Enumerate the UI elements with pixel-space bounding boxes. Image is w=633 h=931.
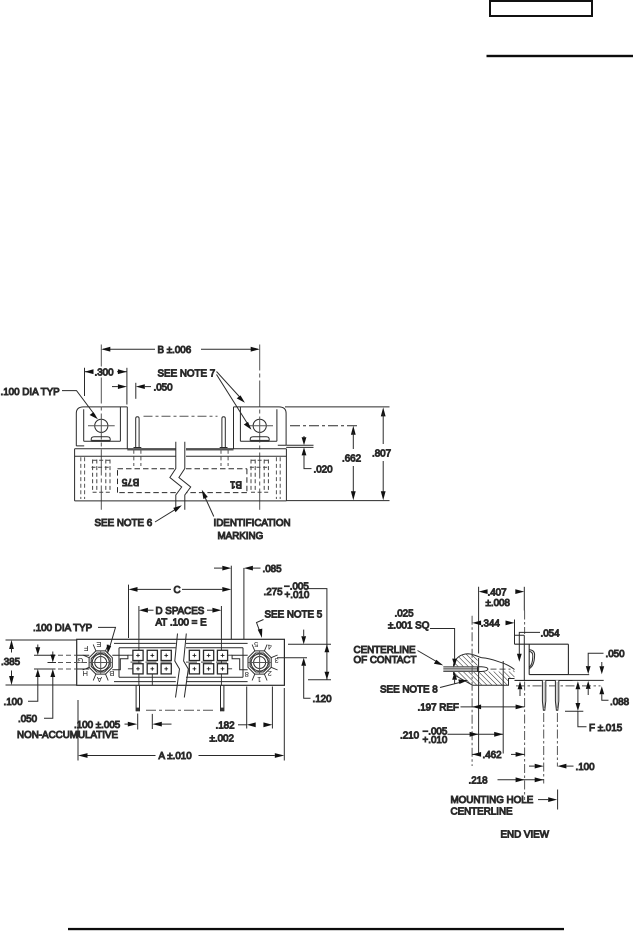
dim .085 [214, 564, 282, 640]
svg-text:.182: .182 [216, 721, 235, 732]
svg-text:END VIEW: END VIEW [501, 830, 550, 841]
flange section hatched upper wedge [454, 654, 478, 667]
hole centerline right [259, 345, 261, 510]
row and hole reference lines [34, 655, 56, 669]
shroud inner walls [119, 648, 243, 677]
svg-text:H: H [82, 669, 87, 678]
pin left top view [136, 685, 139, 711]
svg-text:.054: .054 [541, 628, 561, 639]
break lines top view [175, 634, 180, 698]
tab on body [515, 635, 525, 644]
body outline top view [77, 639, 285, 685]
label MOUNTING HOLE CENTERLINE [451, 790, 558, 818]
dim C [129, 566, 232, 640]
pcb pin 2 [555, 680, 558, 710]
seating plane centerline [516, 685, 601, 687]
svg-text:C: C [174, 585, 181, 596]
pin centerlines below [543, 713, 545, 784]
label SEE NOTE 7 [158, 369, 252, 430]
svg-text:.385: .385 [1, 657, 21, 668]
svg-text:5: 5 [254, 640, 258, 649]
svg-text:F: F [84, 644, 89, 653]
svg-text:.050: .050 [18, 714, 38, 725]
flange section outline [454, 654, 515, 685]
svg-text:B75: B75 [121, 476, 139, 487]
label .100 DIA TYP front [1, 387, 98, 420]
row line stubs into steps [128, 655, 232, 669]
svg-text:.210: .210 [400, 731, 420, 742]
svg-text:.100 DIA TYP: .100 DIA TYP [33, 623, 93, 634]
svg-text:.100: .100 [576, 762, 596, 773]
dim D SPACES AT .100 = E [139, 606, 222, 638]
mounting hole right [253, 419, 266, 432]
dim .182 [210, 687, 273, 745]
svg-text:±.001 SQ: ±.001 SQ [388, 620, 430, 631]
cavity mid wall dashes [131, 661, 231, 663]
svg-text:MARKING: MARKING [218, 531, 264, 542]
dim .120 [277, 630, 332, 705]
svg-text:SEE NOTE 6: SEE NOTE 6 [95, 518, 153, 529]
svg-text:.407: .407 [488, 587, 507, 598]
sunburst lines right [252, 645, 278, 681]
svg-text:.197 REF: .197 REF [418, 703, 459, 714]
svg-text:.088: .088 [610, 697, 630, 708]
svg-text:NON-ACCUMULATIVE: NON-ACCUMULATIVE [17, 730, 119, 741]
mounting hole centerline vertical [524, 611, 526, 801]
svg-text:.085: .085 [263, 564, 283, 575]
dim .275 [264, 581, 332, 679]
dim .218 [469, 776, 544, 787]
position numbers right boss [245, 640, 279, 684]
svg-text:AT .100 = E: AT .100 = E [156, 617, 208, 628]
dim .050 end view [586, 649, 625, 695]
dim .807 [285, 407, 391, 501]
break lines front [170, 442, 182, 510]
svg-text:OF CONTACT: OF CONTACT [354, 655, 417, 666]
body slab [75, 449, 287, 501]
svg-text:2: 2 [268, 669, 272, 678]
dim .088 [599, 662, 629, 708]
slot below right hole [250, 437, 269, 441]
hole centerline left [100, 345, 102, 510]
svg-text:F ±.015: F ±.015 [589, 723, 623, 734]
dim .385 [1, 640, 76, 685]
svg-text:.100 ±.005: .100 ±.005 [74, 720, 121, 731]
svg-text:A: A [96, 675, 102, 684]
svg-text:.025: .025 [395, 608, 415, 619]
label SEE NOTE 6 [95, 505, 182, 529]
svg-text:CENTERLINE: CENTERLINE [451, 807, 514, 818]
cavity arc [529, 650, 534, 669]
svg-text:D SPACES: D SPACES [156, 606, 205, 617]
shroud outer walls [114, 643, 248, 681]
mounting post edges [479, 587, 504, 754]
svg-text:.300: .300 [95, 367, 115, 378]
dim .054 [517, 628, 560, 696]
position letters left boss [77, 640, 114, 684]
svg-text:1: 1 [257, 675, 261, 684]
left octagon boss [89, 651, 112, 674]
svg-text:±.008: ±.008 [486, 598, 511, 609]
bottom rule [68, 928, 564, 930]
pcb pin 1 [542, 680, 545, 710]
contact tail centerline vertical [471, 616, 473, 766]
left mounting flange outline [76, 407, 127, 449]
svg-text:B ±.006: B ±.006 [158, 345, 192, 356]
svg-text:.662: .662 [342, 453, 361, 464]
identification marking box [118, 469, 247, 493]
svg-text:.120: .120 [313, 694, 333, 705]
svg-text:.218: .218 [469, 776, 489, 787]
dim B +-.006 [101, 345, 259, 356]
dim .344 [472, 619, 514, 636]
svg-text:.275: .275 [264, 587, 284, 598]
body bottom extension [568, 674, 589, 676]
dim .100 +-.005 [74, 714, 172, 731]
dim .050 hole to row [18, 652, 55, 726]
hidden end wall lines [81, 457, 280, 499]
contact blade [443, 667, 478, 671]
dim A +-.010 [78, 688, 284, 762]
dim .100 pins [529, 762, 595, 773]
contact centerline horizontal [491, 668, 511, 670]
mating face phantom line [144, 415, 218, 417]
contact cavities row 1 [133, 650, 228, 660]
dim .210 [400, 727, 503, 746]
contact cavities row 2 [133, 664, 228, 674]
dim .662 [290, 426, 361, 501]
dim F +-.015 [576, 681, 623, 734]
dim .100 rows [4, 645, 41, 709]
label .100 DIA TYP top view [33, 623, 116, 654]
body end view [515, 644, 569, 674]
mounting hole left [95, 419, 108, 432]
svg-text:.100 DIA TYP: .100 DIA TYP [1, 387, 61, 398]
svg-text:B1: B1 [230, 478, 242, 489]
svg-text:SEE NOTE 5: SEE NOTE 5 [265, 610, 323, 621]
svg-text:.462: .462 [483, 750, 502, 761]
svg-text:+.010: +.010 [423, 735, 448, 746]
sunburst lines left [83, 645, 109, 681]
svg-text:.807: .807 [372, 448, 391, 459]
hidden hole projection left [92, 460, 112, 493]
svg-text:4: 4 [268, 643, 272, 652]
dim .020 [286, 436, 333, 475]
svg-text:+.010: +.010 [285, 590, 310, 601]
pin row centerline [146, 709, 215, 711]
dim .462 [472, 750, 524, 761]
right octagon boss [248, 651, 271, 674]
right mounting flange outline [234, 407, 287, 449]
svg-text:A ±.010: A ±.010 [159, 751, 193, 762]
svg-text:E: E [96, 640, 101, 649]
label SEE NOTE 5 [257, 610, 323, 638]
dim .025 sq [388, 608, 457, 684]
label CENTERLINE OF CONTACT [354, 645, 444, 666]
label SEE NOTE 8 [380, 679, 468, 695]
svg-text:.050: .050 [154, 382, 174, 393]
pin right top view [221, 685, 224, 711]
svg-text:B: B [109, 669, 114, 678]
polarizing post left [134, 417, 142, 448]
svg-text:IDENTIFICATION: IDENTIFICATION [214, 518, 291, 529]
svg-text:±.002: ±.002 [210, 733, 234, 744]
polarizing post right [220, 417, 228, 448]
svg-text:.020: .020 [314, 464, 334, 475]
dim .300 [85, 367, 127, 404]
right boss step [232, 655, 248, 670]
dim .050 front [112, 382, 173, 399]
hidden hole projection right [250, 460, 270, 493]
top rule [487, 55, 633, 57]
body seam [523, 635, 525, 680]
left boss step [112, 655, 128, 670]
column centerline extensions [139, 638, 222, 686]
svg-text:.344: .344 [481, 619, 501, 630]
dim .407 [479, 587, 525, 611]
svg-text:SEE NOTE 7: SEE NOTE 7 [158, 369, 216, 380]
svg-text:8: 8 [245, 670, 249, 679]
flange section hatched lower slab [454, 670, 515, 685]
base bottom [515, 679, 573, 681]
pin tip level line [565, 710, 583, 712]
slot below left hole [91, 437, 110, 441]
title box top right [490, 1, 592, 16]
svg-text:G: G [77, 656, 83, 665]
label IDENTIFICATION MARKING [202, 490, 291, 542]
hidden post anchor lines [134, 450, 228, 466]
svg-text:SEE NOTE 8: SEE NOTE 8 [380, 684, 438, 695]
svg-text:.100: .100 [4, 697, 24, 708]
svg-text:.050: .050 [606, 649, 626, 660]
svg-text:MOUNTING HOLE: MOUNTING HOLE [451, 795, 534, 806]
dim .197 REF [418, 703, 525, 714]
